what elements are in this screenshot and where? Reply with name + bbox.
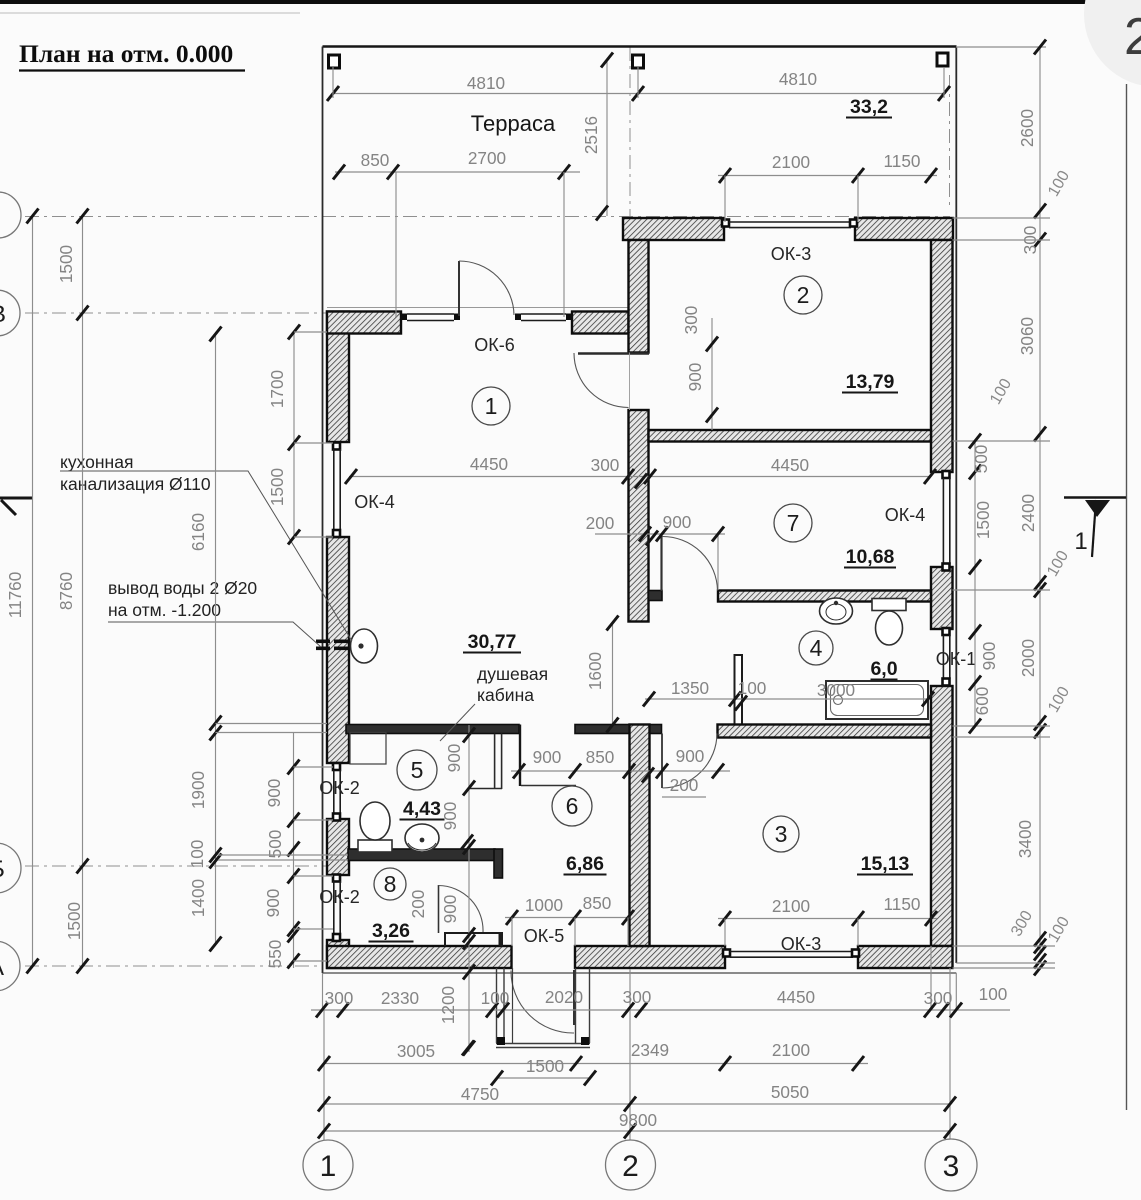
room 1 circle <box>472 387 510 425</box>
svg-text:900: 900 <box>979 642 999 671</box>
section arrow left <box>0 497 33 500</box>
svg-text:200: 200 <box>408 890 428 919</box>
window OK-3 top <box>722 220 729 227</box>
window OK-1 <box>943 628 950 635</box>
entry door leaf <box>573 970 575 1025</box>
svg-text:900: 900 <box>676 746 705 766</box>
svg-text:100: 100 <box>738 678 767 698</box>
svg-text:кабина: кабина <box>477 685 534 705</box>
svg-text:300: 300 <box>924 988 953 1008</box>
svg-text:ОК-4: ОК-4 <box>885 505 926 525</box>
svg-text:на отм. -1.200: на отм. -1.200 <box>108 600 221 620</box>
svg-text:6,86: 6,86 <box>566 853 604 875</box>
terrace outline <box>323 45 957 48</box>
axis 2 terrace <box>629 47 631 218</box>
room3 door leaf <box>661 734 663 789</box>
svg-text:3: 3 <box>943 1150 960 1183</box>
dim 1600 <box>612 623 614 725</box>
svg-text:2516: 2516 <box>581 116 601 154</box>
axis circle 3 <box>925 1139 977 1191</box>
partition room5/8 <box>348 849 495 861</box>
window OK-2 upper <box>333 763 340 770</box>
room6 top door jamb line <box>519 725 521 787</box>
right chain 2600/300/3060/2400/2000/3400 <box>1039 47 1041 953</box>
axis circle 1 <box>303 1140 353 1190</box>
svg-text:7: 7 <box>787 510 800 536</box>
bath door leaf <box>660 536 662 591</box>
svg-text:4: 4 <box>810 635 823 661</box>
svg-text:900: 900 <box>440 802 460 831</box>
right wall upper <box>931 240 953 472</box>
svg-text:4750: 4750 <box>461 1084 499 1104</box>
corner circle 2 <box>1084 0 1141 87</box>
top-left house wall <box>327 307 629 309</box>
chain y1063 3005/2349/2100 <box>324 1063 868 1065</box>
svg-text:850: 850 <box>586 747 615 767</box>
svg-text:200: 200 <box>586 513 615 533</box>
dim 2516 <box>606 60 608 216</box>
svg-text:1400: 1400 <box>188 879 208 917</box>
svg-text:3400: 3400 <box>1015 820 1035 858</box>
svg-text:9800: 9800 <box>619 1110 657 1130</box>
window OK-2 lower <box>333 875 340 882</box>
axis 3 terrace <box>949 75 951 205</box>
svg-text:15,13: 15,13 <box>861 853 910 875</box>
svg-text:2100: 2100 <box>772 152 810 172</box>
svg-text:4450: 4450 <box>777 987 815 1007</box>
svg-text:300: 300 <box>591 455 620 475</box>
dim 4450/300/4450 y476 <box>349 476 930 478</box>
partition piece 850 <box>575 725 630 734</box>
axis Г <box>25 216 950 218</box>
stub at corridor <box>649 591 663 601</box>
room 3 circle <box>763 816 799 852</box>
svg-text:1: 1 <box>485 393 498 419</box>
axis А <box>25 965 323 967</box>
chain 6160/1900/100/1400 <box>215 334 217 944</box>
svg-text:5050: 5050 <box>771 1082 809 1102</box>
svg-text:Б: Б <box>0 856 5 883</box>
sink room5 <box>405 824 439 852</box>
svg-text:5: 5 <box>411 757 424 783</box>
bottom wall left piece <box>327 946 512 968</box>
dim 4810+4810 <box>333 93 944 95</box>
svg-text:1900: 1900 <box>188 771 208 809</box>
svg-text:ОК-6: ОК-6 <box>474 335 515 355</box>
svg-text:600: 600 <box>972 687 992 716</box>
shower stub double line <box>494 734 496 790</box>
right border line <box>1126 84 1128 1110</box>
svg-text:2330: 2330 <box>381 988 419 1008</box>
chain y1078 1500 <box>497 1077 590 1079</box>
wall room7/room4 <box>718 591 931 602</box>
svg-text:ОК-5: ОК-5 <box>524 926 565 946</box>
porch <box>496 968 498 1043</box>
svg-text:2020: 2020 <box>545 987 583 1007</box>
shower dims 900/900 <box>468 725 470 1052</box>
bottom wall right piece <box>858 946 953 968</box>
wall room4/room3 <box>718 725 932 738</box>
room3 door arc <box>663 734 718 789</box>
corner artifact bar <box>0 0 1095 4</box>
svg-text:900: 900 <box>663 512 692 532</box>
axis circle А <box>0 941 20 991</box>
svg-text:300: 300 <box>325 988 354 1008</box>
svg-text:1350: 1350 <box>671 678 709 698</box>
axis Б <box>25 865 350 867</box>
svg-text:10,68: 10,68 <box>846 546 895 568</box>
svg-text:500: 500 <box>971 445 991 474</box>
svg-text:А: А <box>0 954 4 981</box>
svg-text:4810: 4810 <box>779 69 817 89</box>
svg-text:1200: 1200 <box>438 986 458 1024</box>
bathroom stub wall <box>735 655 743 726</box>
svg-text:850: 850 <box>361 150 390 170</box>
chain 1500/8760/1500 <box>82 216 84 966</box>
chain 11760 <box>32 216 34 966</box>
room6 door leaf <box>521 785 576 787</box>
svg-text:1: 1 <box>1074 528 1087 555</box>
svg-text:вывод воды 2 Ø20: вывод воды 2 Ø20 <box>108 578 257 598</box>
svg-text:2000: 2000 <box>1018 639 1038 677</box>
chain 1700/1500 <box>293 332 295 537</box>
svg-text:900: 900 <box>533 747 562 767</box>
room2 door dims 300/900 <box>711 318 713 430</box>
svg-text:900: 900 <box>440 895 460 924</box>
terrace posts <box>329 55 340 68</box>
svg-text:1: 1 <box>320 1150 337 1183</box>
svg-text:Терраса: Терраса <box>471 111 556 136</box>
svg-text:8760: 8760 <box>56 572 76 610</box>
room 6 circle <box>552 786 592 826</box>
svg-text:100: 100 <box>187 840 207 869</box>
svg-text:2100: 2100 <box>772 896 810 916</box>
wall between room2 and room7 <box>649 430 932 442</box>
svg-text:11760: 11760 <box>5 572 25 619</box>
room8 door arc <box>439 886 484 933</box>
toilet room5 <box>358 840 392 852</box>
svg-text:4,43: 4,43 <box>403 798 441 820</box>
room 7 circle <box>774 504 812 542</box>
corridor wall below door <box>629 410 649 622</box>
svg-text:550: 550 <box>265 940 285 969</box>
svg-text:500: 500 <box>265 830 285 859</box>
dim 200/900 y534 <box>595 533 725 535</box>
left wall mid <box>327 537 349 763</box>
svg-text:ОК-4: ОК-4 <box>354 492 395 512</box>
svg-text:1600: 1600 <box>585 652 605 690</box>
right inner chain 500/1500/900/600 <box>974 441 976 726</box>
svg-text:3060: 3060 <box>1017 317 1037 355</box>
stub left of room3 door <box>649 725 662 734</box>
chain y1131 9800 <box>324 1130 950 1132</box>
svg-text:душевая: душевая <box>477 664 548 684</box>
svg-text:4810: 4810 <box>467 73 505 93</box>
dim 1000/850 y917 <box>505 917 630 919</box>
svg-text:2100: 2100 <box>772 1040 810 1060</box>
svg-text:4450: 4450 <box>470 454 508 474</box>
ext verticals bottom <box>322 973 324 1010</box>
axis circle Б <box>0 843 21 893</box>
svg-text:900: 900 <box>264 779 284 808</box>
door to room 1 arc <box>574 353 629 408</box>
terrace door arc <box>459 261 514 315</box>
svg-text:План на отм. 0.000: План на отм. 0.000 <box>19 39 233 68</box>
corridor wall above door <box>629 240 649 353</box>
svg-text:1000: 1000 <box>525 895 563 915</box>
svg-text:3,26: 3,26 <box>372 920 410 942</box>
dim 900/850/900 y771 <box>511 770 730 772</box>
svg-text:ОК-2: ОК-2 <box>319 778 360 798</box>
svg-text:6160: 6160 <box>188 513 208 551</box>
room 8 circle <box>374 868 406 900</box>
right wall lower <box>931 686 953 946</box>
svg-text:2: 2 <box>622 1150 639 1183</box>
svg-text:2400: 2400 <box>1018 494 1038 532</box>
sink room4 <box>820 598 853 624</box>
svg-text:100: 100 <box>979 984 1008 1004</box>
svg-text:ОК-1: ОК-1 <box>936 649 977 669</box>
svg-text:3: 3 <box>775 821 788 847</box>
shower cabin square <box>350 733 386 765</box>
svg-text:300: 300 <box>623 987 652 1007</box>
svg-text:В: В <box>0 301 6 328</box>
svg-text:300: 300 <box>681 306 701 335</box>
chain y1010 300/2330/100/2020/300/4450/300/100 <box>311 1009 1010 1011</box>
svg-text:2700: 2700 <box>468 148 506 168</box>
svg-text:2: 2 <box>797 282 810 308</box>
axis В <box>25 312 328 314</box>
section arrow right <box>1064 496 1126 498</box>
top wall room2 right piece <box>855 218 953 240</box>
chain 900/500/900/550 <box>293 733 295 968</box>
dim 2100/1150 top <box>718 175 937 177</box>
wall between room6 and room3 <box>630 725 650 947</box>
dim 1350/100/3000 y699 <box>645 698 930 700</box>
svg-text:2349: 2349 <box>631 1040 669 1060</box>
svg-text:850: 850 <box>583 893 612 913</box>
water pipes marks <box>316 640 330 644</box>
svg-text:1500: 1500 <box>64 902 84 940</box>
window OK-4 right <box>943 471 950 478</box>
svg-text:1500: 1500 <box>56 245 76 283</box>
room 4 circle <box>799 631 833 665</box>
svg-text:ОК-2: ОК-2 <box>319 887 360 907</box>
room 5 circle <box>397 750 437 790</box>
svg-text:900: 900 <box>444 744 464 773</box>
room 2 circle <box>784 276 822 314</box>
svg-text:6: 6 <box>566 793 579 819</box>
room8 door leaf <box>438 885 440 933</box>
axis circle Г <box>0 192 21 238</box>
entry door arc <box>511 971 574 1034</box>
dim 850 2700 <box>335 171 580 173</box>
svg-text:3000: 3000 <box>817 680 855 700</box>
svg-text:200: 200 <box>670 775 699 795</box>
chain y1104 4750/5050 <box>324 1103 950 1105</box>
right ext lines <box>953 217 1051 219</box>
window OK-6 strips <box>407 313 454 315</box>
left wall bottom corner <box>327 940 349 968</box>
svg-text:8: 8 <box>384 871 397 897</box>
svg-text:кухонная: кухонная <box>60 452 133 472</box>
kitchen sink room1 <box>351 629 378 663</box>
svg-text:2600: 2600 <box>1017 109 1037 147</box>
top wall right piece <box>572 312 629 334</box>
svg-text:33,2: 33,2 <box>850 96 888 118</box>
svg-text:900: 900 <box>685 363 705 392</box>
svg-text:ОК-3: ОК-3 <box>781 934 822 954</box>
svg-text:1150: 1150 <box>884 151 921 171</box>
window OK-3 bottom <box>723 950 730 957</box>
left ext lines <box>216 723 328 725</box>
axis circle В <box>0 290 20 336</box>
svg-text:3005: 3005 <box>397 1041 435 1061</box>
svg-text:1500: 1500 <box>973 501 993 539</box>
svg-text:ОК-3: ОК-3 <box>771 244 812 264</box>
bath door arc <box>662 536 718 590</box>
svg-text:1150: 1150 <box>884 894 921 914</box>
toilet room4 <box>872 599 906 611</box>
partition under room1 <box>346 725 519 734</box>
svg-text:1500: 1500 <box>526 1056 564 1076</box>
svg-text:1700: 1700 <box>267 370 287 408</box>
top wall left piece <box>327 312 401 334</box>
svg-text:4450: 4450 <box>771 455 809 475</box>
terrace door leaf <box>458 261 460 316</box>
window OK-4 left <box>333 443 340 450</box>
svg-text:30,77: 30,77 <box>468 631 517 653</box>
bottom wall mid piece <box>575 946 725 968</box>
svg-text:900: 900 <box>263 889 283 918</box>
left wall between OK-2 windows <box>327 819 349 875</box>
door to room 1 leaf <box>578 352 649 355</box>
svg-text:100: 100 <box>481 988 510 1008</box>
right wall mid <box>931 567 953 629</box>
axis circle 2 <box>606 1140 656 1190</box>
svg-text:1500: 1500 <box>267 468 287 506</box>
svg-text:13,79: 13,79 <box>846 371 895 393</box>
left wall upper <box>327 312 349 443</box>
bathtub <box>826 681 928 719</box>
bottom outer finish line <box>323 972 957 974</box>
room8 bottom band / entry jamb box <box>445 933 503 946</box>
stub down from partition <box>494 849 503 878</box>
svg-text:6,0: 6,0 <box>870 658 897 680</box>
dim 2100/1150 bottom <box>718 918 937 920</box>
top wall room2 left piece <box>623 218 724 240</box>
svg-text:2: 2 <box>1124 8 1141 66</box>
